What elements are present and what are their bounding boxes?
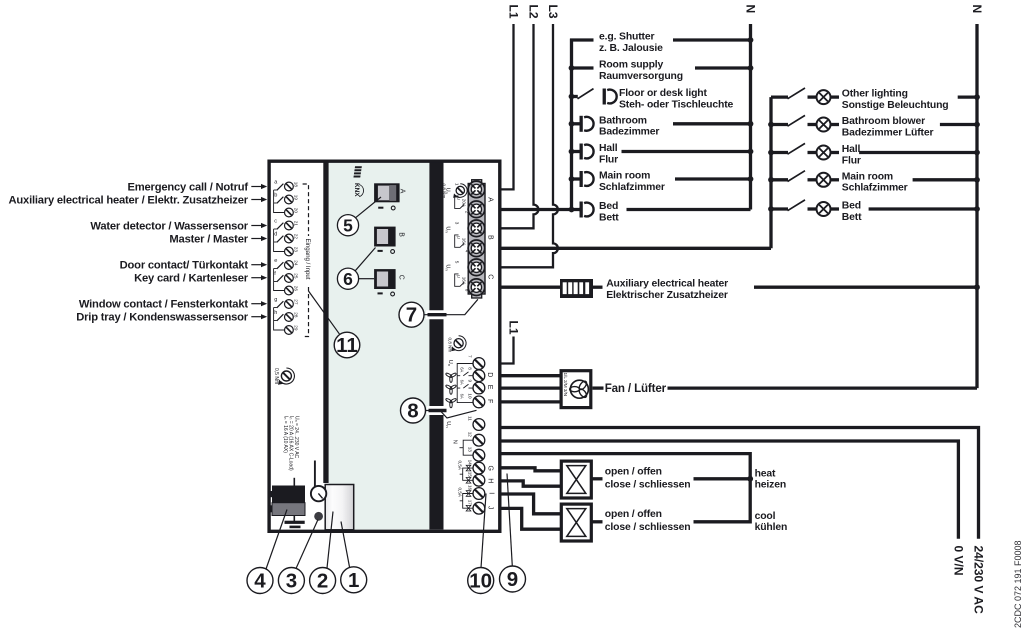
svg-text:Eingang / Input: Eingang / Input [304, 239, 311, 280]
svg-text:7: 7 [468, 355, 473, 358]
svg-text:20A: 20A [461, 199, 466, 208]
svg-text:N: N [744, 5, 758, 14]
svg-text:Main room: Main room [599, 171, 650, 182]
terminal 5 screw [454, 259, 484, 276]
svg-text:Un: Un [445, 421, 451, 427]
svg-text:10: 10 [468, 393, 473, 399]
wire right load bus [769, 97, 772, 248]
svg-text:0,5A: 0,5A [457, 488, 462, 498]
svg-text:6A: 6A [460, 367, 465, 372]
load row 4: bathroom lamp [569, 115, 754, 137]
svg-text:17: 17 [468, 500, 473, 506]
input label d: master [169, 233, 267, 245]
wire valve cool close (J) [499, 508, 561, 529]
callout 7 (output terminals A-C) [399, 299, 478, 327]
torque screw 0.5 Nm [273, 368, 295, 385]
terminal 9 screw [468, 380, 485, 394]
svg-text:A: A [487, 197, 494, 202]
svg-text:29: 29 [294, 325, 299, 331]
svg-text:9: 9 [507, 568, 518, 591]
input label a: emergency call [128, 181, 268, 193]
svg-text:13: 13 [468, 447, 473, 453]
switch C (manual operation output C) [374, 269, 404, 296]
load row R3: hall, switch + lamp [768, 143, 980, 166]
load row R2: bathroom blower, switch + lamp [768, 115, 980, 138]
wire fan speed E [499, 386, 561, 389]
svg-text:Un: Un [444, 226, 450, 232]
svg-text:N: N [451, 440, 457, 444]
svg-text:g: g [274, 297, 277, 303]
KNX bus connection terminal [268, 478, 305, 528]
label N + bracket terminals 12/13 [451, 440, 473, 456]
wire N to 0 V/N [499, 441, 958, 539]
svg-text:1: 1 [454, 183, 459, 186]
load row 6: main room lamp [569, 171, 754, 193]
svg-text:b: b [274, 192, 277, 198]
svg-text:4: 4 [254, 570, 266, 593]
load row 1: shutter [570, 32, 753, 54]
fan unit box [561, 371, 591, 408]
callout 4 (bus terminal) [247, 510, 287, 594]
load row R5: bed, switch + lamp [768, 200, 980, 223]
svg-text:Drip tray / Kondenswassersenso: Drip tray / Kondenswassersensor [76, 312, 248, 324]
svg-text:Other lighting: Other lighting [842, 89, 908, 100]
svg-text:Schlafzimmer: Schlafzimmer [599, 182, 665, 193]
fan speed selector bracket [457, 364, 473, 403]
wire valve common from terminal 13 [499, 454, 750, 522]
switch A (manual operation output A) [374, 183, 405, 210]
svg-text:Auxiliary electrical heater: Auxiliary electrical heater [606, 279, 728, 290]
svg-text:8: 8 [407, 400, 418, 423]
svg-text:Fan / Lüfter: Fan / Lüfter [605, 382, 667, 395]
svg-text:Elektrischer Zusatzheizer: Elektrischer Zusatzheizer [606, 290, 728, 301]
svg-text:close / schliessen: close / schliessen [605, 522, 691, 533]
load row R1: other lighting, switch + lamp [771, 88, 980, 111]
input contact group a/b (terminals 18-20) [274, 179, 299, 217]
svg-text:Bathroom: Bathroom [599, 115, 647, 126]
svg-text:Window contact / Fensterkontak: Window contact / Fensterkontakt [79, 299, 248, 311]
svg-text:Un: Un [444, 264, 450, 270]
svg-text:16: 16 [468, 485, 473, 491]
wire left load bus [570, 39, 573, 210]
valve actuator heat [561, 461, 591, 498]
svg-text:N: N [970, 5, 984, 14]
svg-text:Floor or desk light: Floor or desk light [619, 88, 707, 99]
svg-text:Auxiliary electrical heater /: Auxiliary electrical heater / Elektr. Zu… [9, 194, 249, 206]
bracket output B with 16A rating [455, 235, 467, 247]
svg-text:7: 7 [406, 304, 417, 327]
terminal 7 screw [468, 355, 485, 369]
svg-text:J: J [486, 506, 493, 510]
callout 11 (input zone) [309, 291, 360, 358]
svg-text:10: 10 [469, 570, 492, 593]
svg-text:Schlafzimmer: Schlafzimmer [842, 183, 908, 194]
svg-text:h: h [274, 310, 277, 316]
wire output A from terminal 2 to lamp bus [499, 208, 580, 211]
terminal 6 screw [464, 279, 484, 296]
ABB logo mark [353, 166, 361, 177]
svg-text:B: B [397, 232, 404, 237]
wire fan to N2 [593, 386, 604, 389]
input contact group e/f (terminals 24-26) [274, 258, 299, 295]
terminal 3 screw [454, 220, 484, 237]
svg-text:I: I [488, 492, 495, 494]
svg-text:Steh- oder Tischleuchte: Steh- oder Tischleuchte [619, 99, 734, 110]
wire fan speed D [499, 374, 561, 377]
svg-text:μ: μ [457, 197, 462, 200]
svg-text:0,5 Nm: 0,5 Nm [273, 368, 279, 384]
input contact group c/d (terminals 21-23) [274, 218, 299, 256]
switch B (manual operation output B) [374, 227, 404, 254]
svg-text:6: 6 [464, 289, 469, 292]
wire L1 feed to terminal 1 [499, 24, 514, 189]
svg-text:L1: L1 [507, 321, 521, 335]
svg-text:μ: μ [457, 275, 462, 278]
terminal 16 screw [468, 485, 485, 499]
svg-text:μ: μ [457, 236, 462, 239]
svg-text:12: 12 [468, 432, 473, 438]
terminal 1 screw [454, 181, 484, 198]
wire L2 feed to terminal 3, hop over output A wire [499, 24, 538, 228]
svg-text:16A: 16A [461, 277, 466, 286]
svg-text:1/L 2/M 3/N: 1/L 2/M 3/N [563, 373, 568, 397]
svg-text:15: 15 [468, 472, 473, 478]
input label e: door contact [120, 260, 268, 272]
svg-text:21: 21 [294, 221, 299, 227]
svg-text:18: 18 [294, 182, 299, 188]
wire heater to N2 [593, 286, 603, 289]
callout 1 (label holder) [341, 522, 367, 593]
terminal 12 screw [468, 432, 485, 446]
wire valve heat open (G) [499, 468, 561, 471]
callout 6 (switches B/C) [337, 248, 375, 290]
terminal 15 screw [468, 472, 485, 486]
svg-text:1: 1 [348, 569, 359, 592]
wire output B from terminal 4 to right lamp bus [499, 247, 771, 250]
svg-text:Un: Un [444, 188, 450, 194]
svg-text:28: 28 [294, 312, 299, 318]
svg-text:Room supply: Room supply [599, 60, 664, 71]
heater element (auxiliary electrical heater) [560, 279, 593, 298]
svg-text:23: 23 [294, 247, 299, 253]
KNX logo [353, 183, 364, 197]
svg-text:open / offen: open / offen [605, 509, 662, 520]
svg-text:14: 14 [468, 460, 473, 466]
svg-text:16A: 16A [461, 238, 466, 247]
svg-text:Flur: Flur [599, 154, 618, 165]
input label h: drip tray [76, 312, 267, 324]
terminal 13 screw [468, 447, 485, 461]
svg-text:Hall: Hall [842, 144, 861, 155]
svg-text:z. B. Jalousie: z. B. Jalousie [599, 43, 663, 54]
svg-text:6A: 6A [460, 380, 465, 385]
svg-text:20: 20 [294, 208, 299, 214]
input contact group g/h (terminals 27-29) [274, 297, 299, 335]
node junction A/bus [569, 207, 575, 213]
terminal 11 screw [468, 416, 485, 430]
svg-text:8: 8 [468, 367, 473, 370]
svg-text:3: 3 [454, 222, 459, 225]
wire valve heat close (H) [499, 481, 561, 486]
svg-text:11: 11 [336, 334, 358, 357]
svg-text:kühlen: kühlen [755, 522, 788, 533]
wire output C from terminal 6 to heater [499, 286, 561, 289]
svg-text:In = 16 A (10 AX): In = 16 A (10 AX) [282, 416, 289, 453]
valve actuator cool [561, 504, 591, 541]
svg-text:6: 6 [343, 269, 353, 289]
bracket output A with 20A rating [455, 196, 467, 208]
load row 3: floor or desk light with switch contact [569, 88, 734, 110]
wire Un supply to 24/230 V AC [499, 428, 979, 539]
wire fan speed F [499, 400, 561, 403]
svg-text:Master / Master: Master / Master [169, 233, 248, 245]
load row 5: hall lamp [569, 143, 754, 165]
load row R4: main room, switch + lamp [768, 171, 980, 194]
svg-text:C: C [487, 274, 494, 279]
svg-text:L3: L3 [546, 5, 560, 19]
svg-text:Bathroom blower: Bathroom blower [842, 116, 925, 127]
callout 3 (programming button) [278, 520, 318, 594]
svg-text:Hall: Hall [599, 143, 618, 154]
callout 2 (programming LED) [310, 512, 336, 594]
wire L1 to fan terminal 7 [499, 337, 514, 364]
label holder window [325, 485, 354, 530]
programming LED [314, 512, 323, 521]
svg-text:heizen: heizen [755, 480, 786, 491]
svg-text:Main room: Main room [842, 171, 893, 182]
wire valve cool open (I) [499, 494, 561, 514]
svg-text:26: 26 [294, 286, 299, 292]
torque screw 0.8 Nm (outputs A-C) [442, 184, 468, 199]
svg-text:Bed: Bed [599, 201, 618, 212]
terminal 2 screw [464, 201, 484, 218]
callout 10 (valve terminals) [468, 494, 494, 594]
device U1 room controller body [267, 160, 501, 534]
torque screw 0.8 Nm (fan outputs) [447, 336, 466, 353]
svg-text:4: 4 [464, 250, 469, 253]
terminal 10 screw [468, 393, 485, 407]
svg-text:25: 25 [294, 273, 299, 279]
input label g: window contact [79, 299, 267, 311]
wire valve cool to common [592, 520, 603, 523]
input label c: water detector [90, 220, 267, 232]
fan speed symbols [445, 372, 456, 382]
wire valve heat to common [592, 477, 603, 480]
svg-text:0 V/N: 0 V/N [951, 546, 965, 576]
svg-text:c: c [274, 218, 277, 224]
callout 8 (fan terminals) [401, 398, 477, 423]
svg-text:5: 5 [343, 216, 353, 236]
svg-text:Water detector / Wassersensor: Water detector / Wassersensor [90, 220, 248, 232]
svg-text:G: G [486, 466, 493, 471]
svg-text:C: C [397, 275, 404, 280]
output terminal strip A-C [468, 180, 485, 298]
terminal 4 screw [464, 240, 484, 257]
bracket output C with 16A rating [455, 274, 467, 286]
svg-text:A: A [398, 189, 405, 194]
svg-text:KNX: KNX [353, 183, 360, 197]
svg-text:Door contact/ Türkontakt: Door contact/ Türkontakt [120, 260, 249, 272]
wire L3 feed to terminal 5, hops over output A and B wires [499, 24, 558, 267]
node valve common [747, 476, 753, 482]
svg-text:cool: cool [755, 511, 776, 522]
svg-text:24: 24 [294, 260, 299, 266]
terminal 8 screw [468, 367, 485, 381]
node heater/N2 [974, 284, 980, 290]
load row 2: room supply [569, 60, 754, 82]
wire neutral bus N1 [749, 24, 752, 210]
load row 7: bed lamp [579, 201, 751, 223]
terminal 17 screw [468, 500, 485, 514]
svg-text:F: F [486, 399, 493, 403]
svg-text:11: 11 [468, 416, 473, 421]
input label b: auxiliary heater [9, 194, 268, 206]
svg-text:3: 3 [286, 570, 297, 593]
input label f: key card [134, 273, 267, 285]
svg-text:d: d [274, 231, 277, 237]
svg-text:D: D [486, 372, 493, 377]
valve output symbols 0.5A [457, 461, 473, 512]
svg-text:22: 22 [294, 234, 299, 240]
callout 5 (switch A) [337, 197, 381, 236]
device rating text [282, 416, 300, 471]
svg-text:27: 27 [294, 299, 299, 305]
dashed input zone [303, 184, 311, 337]
svg-text:2: 2 [464, 211, 469, 214]
svg-text:open / offen: open / offen [605, 466, 662, 477]
svg-text:24/230 V AC: 24/230 V AC [972, 546, 986, 615]
svg-text:Emergency call / Notruf: Emergency call / Notruf [128, 181, 249, 193]
programming button [311, 461, 326, 502]
svg-text:2CDC 072 191 F0008: 2CDC 072 191 F0008 [1013, 540, 1023, 628]
callout 9 (valve wires) [500, 474, 526, 593]
svg-text:9: 9 [468, 380, 473, 383]
svg-text:Badezimmer: Badezimmer [599, 127, 659, 138]
svg-text:6A: 6A [460, 394, 465, 399]
svg-text:B: B [487, 235, 494, 240]
svg-text:0,5A: 0,5A [457, 461, 462, 471]
svg-text:Flur: Flur [842, 155, 861, 166]
svg-text:E: E [486, 385, 493, 390]
svg-text:Bett: Bett [842, 212, 862, 223]
svg-text:close / schliessen: close / schliessen [605, 480, 691, 491]
terminal 14 screw [468, 460, 485, 474]
svg-text:5: 5 [454, 261, 459, 264]
svg-text:L2: L2 [527, 5, 541, 19]
svg-text:H: H [486, 478, 493, 483]
svg-text:heat: heat [755, 469, 776, 480]
svg-text:e: e [274, 258, 277, 264]
svg-text:Sonstige Beleuchtung: Sonstige Beleuchtung [842, 100, 949, 111]
svg-text:e.g. Shutter: e.g. Shutter [599, 32, 654, 43]
svg-text:Badezimmer Lüfter: Badezimmer Lüfter [842, 127, 934, 138]
svg-text:19: 19 [294, 195, 299, 201]
wire neutral bus N2 [975, 24, 978, 388]
svg-text:L1: L1 [507, 5, 521, 19]
svg-text:Un: Un [447, 360, 453, 366]
svg-text:Raumversorgung: Raumversorgung [599, 71, 683, 82]
svg-text:2: 2 [317, 570, 328, 593]
svg-text:Bed: Bed [842, 201, 861, 212]
svg-text:Bett: Bett [599, 212, 619, 223]
svg-text:Key card / Kartenleser: Key card / Kartenleser [134, 273, 249, 285]
